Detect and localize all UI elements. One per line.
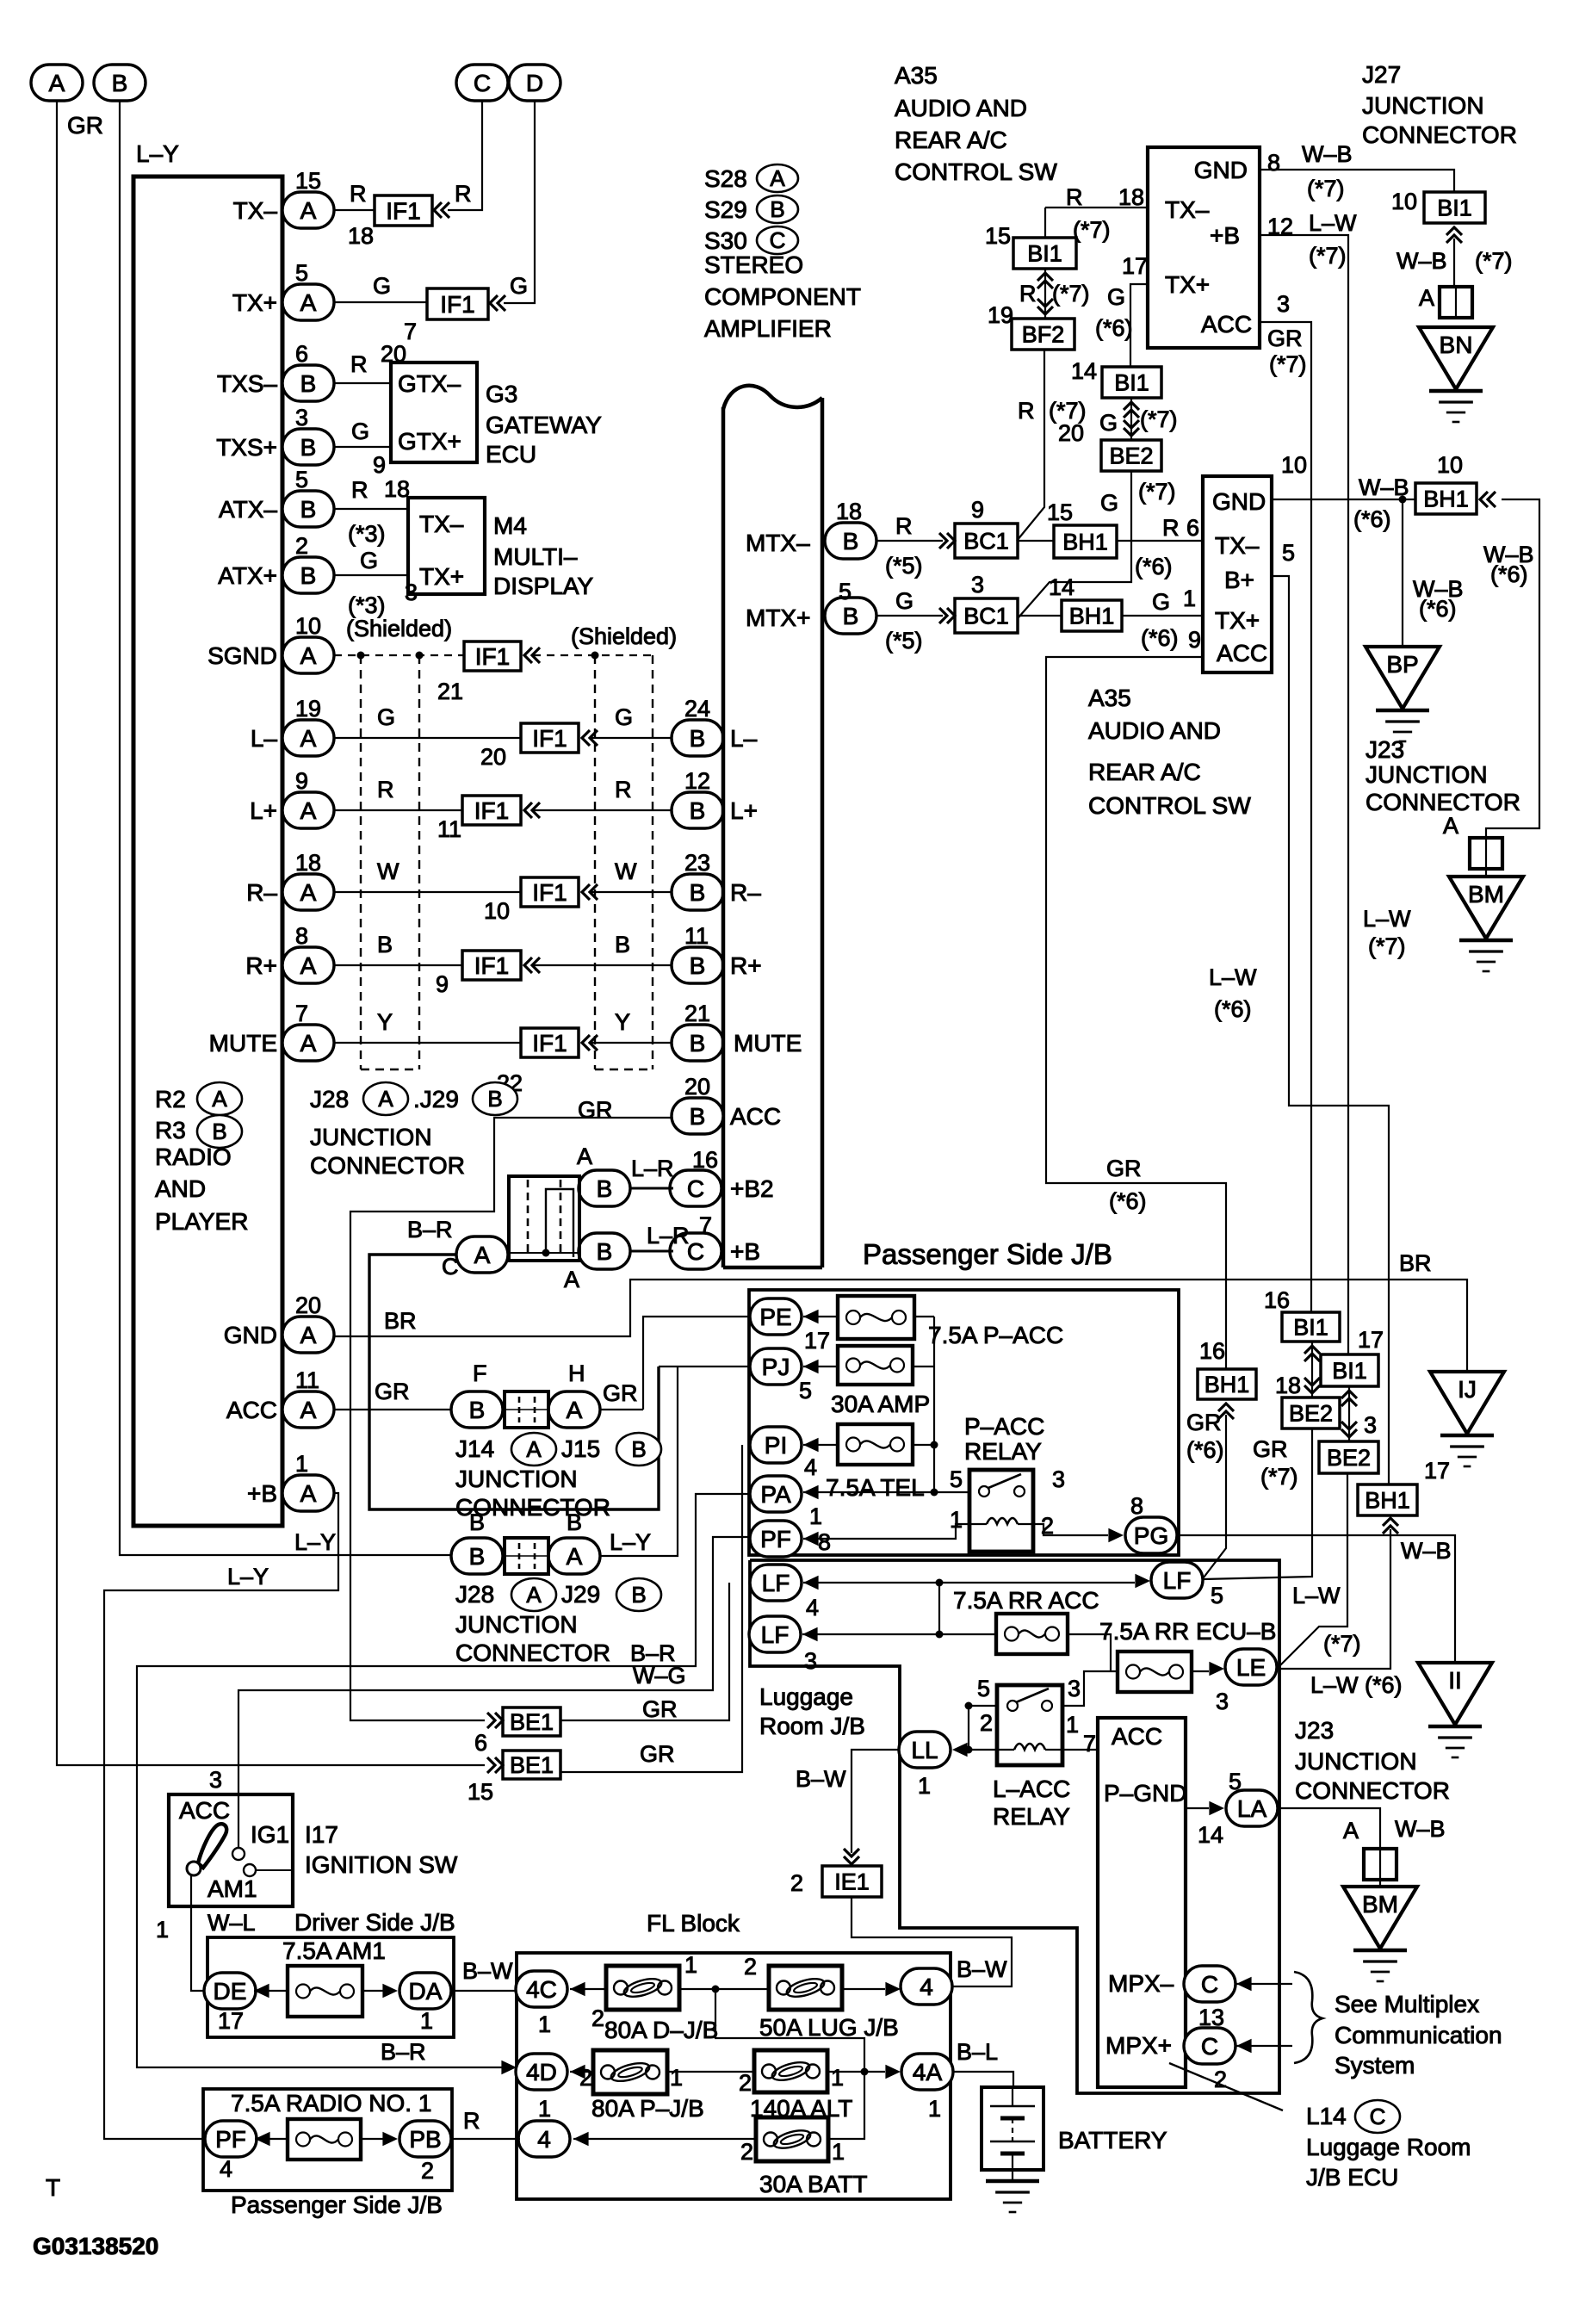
svg-text:A: A: [567, 1543, 583, 1570]
svg-text:MPX–: MPX–: [1108, 1970, 1174, 1997]
svg-text:8: 8: [295, 923, 308, 949]
svg-text:2: 2: [579, 2065, 592, 2091]
svg-text:G03138520: G03138520: [33, 2233, 158, 2259]
svg-text:GR: GR: [67, 112, 103, 139]
svg-text:L+: L+: [730, 797, 758, 824]
svg-text:IF1: IF1: [440, 291, 474, 318]
svg-text:B: B: [112, 70, 128, 96]
svg-text:18: 18: [348, 223, 374, 249]
svg-text:B: B: [300, 496, 317, 523]
svg-text:3: 3: [804, 1648, 817, 1674]
svg-text:L–Y: L–Y: [610, 1529, 651, 1555]
svg-text:GTX–: GTX–: [398, 370, 461, 397]
svg-text:S28: S28: [704, 165, 747, 192]
svg-text:PA: PA: [760, 1481, 791, 1508]
svg-text:B: B: [690, 952, 706, 979]
svg-text:L–W (*6): L–W (*6): [1310, 1672, 1403, 1698]
svg-text:JUNCTION: JUNCTION: [1362, 92, 1484, 119]
svg-text:A: A: [300, 725, 317, 752]
svg-text:G: G: [373, 273, 391, 299]
svg-text:B–W: B–W: [796, 1766, 846, 1792]
svg-text:PG: PG: [1134, 1522, 1168, 1549]
svg-text:A: A: [300, 1480, 317, 1507]
svg-text:18: 18: [1275, 1373, 1301, 1398]
svg-text:G: G: [615, 704, 633, 730]
svg-text:9: 9: [1188, 627, 1201, 653]
svg-text:PLAYER: PLAYER: [155, 1208, 248, 1235]
svg-text:GND: GND: [224, 1322, 277, 1348]
svg-text:GND: GND: [1212, 488, 1266, 515]
svg-text:B: B: [690, 1030, 706, 1057]
svg-text:R2: R2: [155, 1086, 186, 1112]
svg-text:GR: GR: [603, 1380, 638, 1406]
svg-text:RADIO: RADIO: [155, 1143, 232, 1170]
svg-text:5: 5: [1282, 540, 1295, 566]
svg-text:L–Y: L–Y: [294, 1529, 336, 1555]
svg-text:J15: J15: [561, 1435, 600, 1462]
svg-text:B+: B+: [1224, 567, 1254, 593]
svg-text:4: 4: [804, 1454, 817, 1480]
svg-text:CONTROL SW: CONTROL SW: [1088, 792, 1251, 819]
svg-text:PE: PE: [759, 1304, 791, 1330]
svg-text:9: 9: [436, 971, 449, 997]
svg-text:C: C: [1370, 2104, 1386, 2129]
svg-text:80A P–J/B: 80A P–J/B: [591, 2095, 704, 2122]
svg-text:1: 1: [295, 1451, 308, 1477]
svg-text:L–: L–: [730, 725, 758, 752]
svg-text:4D: 4D: [526, 2059, 557, 2085]
svg-text:1: 1: [538, 2096, 551, 2122]
svg-text:2: 2: [421, 2158, 434, 2184]
svg-text:B–R: B–R: [381, 2039, 426, 2065]
svg-text:AM1: AM1: [207, 1875, 257, 1902]
svg-text:17: 17: [804, 1328, 830, 1354]
svg-text:J27: J27: [1362, 61, 1401, 88]
svg-text:IF1: IF1: [474, 797, 509, 824]
svg-text:B: B: [300, 370, 317, 397]
svg-text:BE2: BE2: [1289, 1400, 1333, 1426]
svg-text:1: 1: [832, 2139, 845, 2165]
svg-text:I17: I17: [305, 1821, 338, 1848]
svg-text:4: 4: [920, 1974, 933, 2000]
svg-text:MUTE: MUTE: [734, 1030, 802, 1057]
svg-text:PF: PF: [215, 2126, 246, 2153]
svg-text:GR: GR: [1186, 1410, 1222, 1435]
svg-text:D: D: [526, 70, 543, 96]
svg-text:12: 12: [684, 768, 710, 794]
svg-text:21: 21: [437, 679, 463, 704]
svg-text:5: 5: [1211, 1583, 1223, 1608]
svg-text:6: 6: [474, 1730, 487, 1756]
svg-text:20: 20: [480, 744, 506, 770]
svg-text:IGNITION SW: IGNITION SW: [305, 1851, 458, 1878]
svg-text:A: A: [567, 1397, 583, 1423]
svg-text:TX+: TX+: [1165, 271, 1210, 298]
svg-text:+B: +B: [1210, 222, 1240, 249]
svg-text:CONNECTOR: CONNECTOR: [310, 1152, 465, 1179]
svg-text:BI1: BI1: [1027, 240, 1062, 266]
svg-text:19: 19: [295, 696, 321, 722]
svg-text:3: 3: [209, 1767, 222, 1793]
svg-text:L–W: L–W: [1363, 906, 1411, 932]
svg-text:DISPLAY: DISPLAY: [493, 573, 594, 599]
svg-text:REAR A/C: REAR A/C: [1088, 759, 1201, 785]
svg-text:PJ: PJ: [762, 1354, 790, 1380]
svg-text:TX+: TX+: [1215, 607, 1260, 634]
svg-text:A: A: [770, 165, 785, 191]
svg-text:JUNCTION: JUNCTION: [455, 1611, 578, 1638]
svg-text:S29: S29: [704, 196, 747, 223]
svg-text:(*6): (*6): [1109, 1188, 1147, 1214]
svg-text:G: G: [1152, 589, 1170, 615]
svg-text:20: 20: [1058, 420, 1084, 446]
svg-text:18: 18: [295, 850, 321, 876]
svg-text:CONNECTOR: CONNECTOR: [1295, 1777, 1450, 1804]
svg-text:(*3): (*3): [348, 521, 386, 547]
svg-text:A: A: [300, 1397, 317, 1423]
svg-text:IF1: IF1: [532, 1030, 567, 1057]
svg-text:GND: GND: [1194, 157, 1248, 183]
svg-text:T: T: [46, 2174, 60, 2201]
svg-text:18: 18: [1118, 184, 1144, 210]
svg-text:LE: LE: [1236, 1654, 1266, 1681]
svg-text:A: A: [300, 952, 317, 979]
svg-text:ACC: ACC: [1112, 1723, 1162, 1750]
svg-text:IF1: IF1: [474, 952, 509, 979]
svg-text:L–: L–: [251, 725, 278, 752]
svg-text:7: 7: [699, 1212, 712, 1238]
svg-text:4C: 4C: [526, 1976, 557, 2003]
svg-text:A: A: [1343, 1818, 1359, 1844]
svg-text:10: 10: [295, 613, 321, 639]
svg-text:B: B: [597, 1238, 613, 1265]
svg-text:BP: BP: [1386, 651, 1418, 678]
svg-text:BI1: BI1: [1437, 195, 1472, 220]
svg-text:M4: M4: [493, 512, 527, 539]
svg-text:(*5): (*5): [885, 553, 923, 579]
svg-text:(*7): (*7): [1073, 217, 1111, 243]
svg-text:BH1: BH1: [1423, 486, 1469, 511]
svg-text:B: B: [300, 434, 317, 461]
svg-text:10: 10: [484, 898, 510, 924]
svg-text:L–Y: L–Y: [136, 140, 179, 167]
svg-text:G: G: [351, 418, 369, 444]
svg-text:IF1: IF1: [386, 197, 420, 224]
svg-text:MUTE: MUTE: [209, 1030, 277, 1057]
svg-text:L–Y: L–Y: [227, 1564, 269, 1590]
svg-text:1: 1: [670, 2065, 683, 2091]
svg-text:A: A: [300, 1322, 317, 1348]
svg-text:BN: BN: [1440, 332, 1473, 358]
svg-text:J29: J29: [561, 1581, 600, 1608]
svg-text:R: R: [1162, 515, 1180, 541]
svg-text:A: A: [526, 1582, 542, 1608]
svg-text:J28: J28: [455, 1581, 494, 1608]
svg-text:J23: J23: [1295, 1717, 1334, 1744]
svg-text:ATX+: ATX+: [218, 562, 277, 589]
svg-text:A: A: [300, 1030, 317, 1057]
svg-text:A: A: [526, 1436, 542, 1462]
svg-text:A: A: [474, 1242, 491, 1268]
svg-text:A: A: [300, 289, 317, 316]
svg-text:R: R: [350, 181, 367, 207]
svg-text:2: 2: [1214, 2067, 1227, 2092]
svg-text:BR: BR: [384, 1308, 417, 1334]
svg-text:9: 9: [971, 497, 984, 523]
svg-text:(*6): (*6): [1095, 315, 1133, 341]
svg-text:24: 24: [684, 696, 710, 722]
svg-text:7.5A P–ACC: 7.5A P–ACC: [928, 1322, 1063, 1348]
svg-text:MULTI–: MULTI–: [493, 543, 578, 570]
svg-text:RELAY: RELAY: [993, 1803, 1070, 1830]
svg-text:14: 14: [1049, 574, 1074, 600]
svg-text:+B: +B: [730, 1238, 760, 1265]
svg-text:9: 9: [295, 768, 308, 794]
svg-text:7.5A TEL: 7.5A TEL: [826, 1474, 925, 1501]
svg-text:H: H: [568, 1360, 585, 1386]
svg-text:BE2: BE2: [1327, 1445, 1371, 1471]
svg-text:15: 15: [468, 1779, 493, 1805]
svg-text:3: 3: [971, 572, 984, 598]
svg-text:Room J/B: Room J/B: [759, 1713, 865, 1739]
svg-text:80A D–J/B: 80A D–J/B: [604, 2017, 718, 2043]
svg-text:B–R: B–R: [407, 1217, 453, 1243]
svg-text:R: R: [350, 351, 368, 377]
svg-text:R–: R–: [730, 879, 761, 906]
svg-text:G: G: [377, 704, 395, 730]
svg-text:A35: A35: [1088, 685, 1131, 711]
svg-text:+B2: +B2: [730, 1175, 774, 1202]
svg-text:6: 6: [295, 341, 308, 367]
svg-text:2: 2: [295, 533, 308, 559]
svg-text:TX+: TX+: [232, 289, 277, 316]
svg-text:GR: GR: [1253, 1436, 1288, 1462]
svg-text:MTX–: MTX–: [746, 530, 810, 556]
svg-text:A35: A35: [895, 62, 938, 89]
svg-text:AUDIO AND: AUDIO AND: [895, 95, 1027, 121]
svg-text:+B: +B: [247, 1480, 277, 1507]
svg-text:CONNECTOR: CONNECTOR: [1366, 789, 1520, 815]
svg-text:R: R: [377, 777, 394, 803]
svg-text:(*7): (*7): [1307, 176, 1345, 201]
svg-text:IJ: IJ: [1458, 1376, 1477, 1403]
svg-text:B–W: B–W: [462, 1958, 513, 1984]
svg-text:ECU: ECU: [486, 441, 536, 468]
svg-text:G: G: [360, 548, 378, 573]
svg-text:R: R: [1018, 398, 1035, 424]
svg-text:3: 3: [1364, 1412, 1377, 1438]
svg-text:BE2: BE2: [1109, 443, 1153, 468]
svg-text:BF2: BF2: [1022, 321, 1065, 347]
svg-text:20: 20: [381, 341, 406, 367]
svg-text:17: 17: [218, 2008, 244, 2034]
svg-text:B: B: [631, 1582, 646, 1608]
svg-text:14: 14: [1198, 1822, 1223, 1848]
svg-text:R+: R+: [245, 952, 277, 979]
svg-text:15: 15: [295, 168, 321, 194]
svg-text:B–L: B–L: [957, 2039, 998, 2065]
svg-text:A: A: [564, 1267, 579, 1292]
svg-text:BH1: BH1: [1365, 1487, 1410, 1513]
svg-text:B: B: [469, 1543, 486, 1570]
svg-text:B: B: [843, 528, 859, 555]
svg-text:7: 7: [295, 1001, 308, 1026]
svg-text:L–R: L–R: [647, 1223, 690, 1249]
svg-text:8: 8: [1267, 150, 1280, 176]
svg-text:R: R: [351, 477, 368, 503]
svg-text:TXS–: TXS–: [217, 370, 277, 397]
svg-text:IF1: IF1: [475, 643, 510, 670]
svg-text:C: C: [687, 1238, 704, 1265]
svg-text:5: 5: [977, 1676, 990, 1701]
svg-text:14: 14: [1071, 358, 1097, 384]
svg-text:B: B: [615, 932, 630, 957]
svg-text:COMPONENT: COMPONENT: [704, 283, 861, 310]
svg-text:30A BATT: 30A BATT: [759, 2171, 868, 2197]
svg-text:MTX+: MTX+: [746, 604, 810, 631]
svg-text:ACC: ACC: [226, 1397, 277, 1423]
svg-text:17: 17: [1424, 1458, 1450, 1484]
svg-text:20: 20: [684, 1074, 710, 1100]
svg-text:DA: DA: [409, 1978, 443, 2005]
svg-text:Luggage: Luggage: [759, 1683, 853, 1710]
svg-text:TX–: TX–: [1165, 196, 1210, 223]
svg-text:R: R: [1066, 184, 1083, 210]
svg-text:AMPLIFIER: AMPLIFIER: [704, 315, 832, 342]
svg-text:R: R: [615, 777, 632, 803]
svg-text:B: B: [567, 1509, 582, 1535]
svg-text:7.5A RADIO NO. 1: 7.5A RADIO NO. 1: [231, 2090, 431, 2116]
svg-text:9: 9: [373, 452, 386, 478]
svg-text:G3: G3: [486, 381, 517, 407]
svg-text:5: 5: [799, 1378, 812, 1404]
svg-text:L+: L+: [250, 797, 277, 824]
svg-text:JUNCTION: JUNCTION: [1295, 1748, 1417, 1775]
svg-text:R: R: [455, 181, 472, 207]
svg-text:R–: R–: [246, 879, 277, 906]
svg-text:10: 10: [1281, 452, 1307, 478]
svg-text:3: 3: [295, 405, 308, 431]
svg-text:B–W: B–W: [957, 1956, 1007, 1982]
svg-text:8: 8: [818, 1529, 831, 1555]
svg-text:ACC: ACC: [730, 1103, 781, 1130]
svg-text:MPX+: MPX+: [1105, 2032, 1172, 2059]
svg-text:7.5A RR ACC: 7.5A RR ACC: [953, 1587, 1099, 1614]
svg-text:LA: LA: [1237, 1795, 1267, 1822]
svg-text:15: 15: [985, 223, 1011, 249]
svg-text:L–W: L–W: [1309, 210, 1357, 236]
svg-text:C: C: [1201, 2033, 1218, 2060]
svg-text:ACC: ACC: [1217, 640, 1267, 666]
svg-text:J14: J14: [455, 1435, 494, 1462]
svg-text:A: A: [1419, 285, 1434, 311]
svg-text:5: 5: [839, 579, 852, 604]
svg-text:2: 2: [790, 1870, 803, 1896]
svg-text:16: 16: [1199, 1338, 1225, 1364]
svg-text:A: A: [300, 642, 317, 669]
svg-text:Luggage Room: Luggage Room: [1306, 2134, 1471, 2160]
svg-text:BI1: BI1: [1332, 1358, 1367, 1384]
svg-text:3: 3: [1277, 291, 1290, 317]
svg-text:G: G: [895, 588, 913, 614]
svg-text:CONTROL SW: CONTROL SW: [895, 158, 1057, 185]
svg-text:11: 11: [295, 1367, 319, 1393]
svg-text:5: 5: [295, 260, 308, 286]
svg-text:System: System: [1335, 2052, 1415, 2079]
svg-text:(*7): (*7): [1323, 1631, 1361, 1657]
svg-text:J28: J28: [310, 1086, 349, 1112]
svg-text:GTX+: GTX+: [398, 428, 461, 455]
svg-text:REAR A/C: REAR A/C: [895, 127, 1007, 153]
svg-text:C: C: [1201, 1971, 1218, 1998]
svg-text:20: 20: [295, 1292, 321, 1318]
svg-text:2: 2: [739, 2070, 752, 2096]
svg-text:J23: J23: [1366, 736, 1404, 763]
svg-text:II: II: [1448, 1667, 1462, 1694]
svg-text:LL: LL: [911, 1737, 938, 1763]
svg-text:(*7): (*7): [1052, 281, 1090, 307]
svg-text:A: A: [300, 797, 317, 824]
svg-text:1: 1: [156, 1917, 169, 1943]
svg-text:4: 4: [220, 2156, 232, 2182]
svg-text:1: 1: [538, 2011, 551, 2037]
svg-text:B: B: [212, 1119, 226, 1144]
svg-text:W–B: W–B: [1395, 1816, 1446, 1842]
svg-text:1: 1: [1066, 1712, 1079, 1738]
svg-text:1: 1: [809, 1503, 822, 1529]
svg-text:GR: GR: [642, 1696, 678, 1722]
svg-text:B: B: [597, 1175, 613, 1202]
svg-text:10: 10: [1437, 452, 1463, 478]
svg-text:B: B: [770, 196, 784, 222]
svg-text:1: 1: [928, 2096, 941, 2122]
svg-text:1: 1: [918, 1773, 931, 1799]
svg-text:B: B: [377, 932, 393, 957]
svg-text:L–ACC: L–ACC: [993, 1776, 1070, 1802]
svg-text:7.5A AM1: 7.5A AM1: [282, 1937, 386, 1964]
svg-text:1: 1: [420, 2008, 433, 2034]
svg-text:BM: BM: [1362, 1891, 1398, 1918]
svg-text:B: B: [300, 562, 317, 589]
svg-text:R: R: [1019, 281, 1037, 307]
svg-text:Driver Side J/B: Driver Side J/B: [294, 1909, 455, 1936]
svg-text:AND: AND: [155, 1175, 206, 1202]
svg-text:B: B: [690, 725, 706, 752]
svg-text:23: 23: [684, 850, 710, 876]
svg-text:7: 7: [1083, 1731, 1096, 1757]
svg-text:J/B ECU: J/B ECU: [1306, 2164, 1398, 2191]
svg-text:IF1: IF1: [532, 879, 567, 906]
svg-text:50A LUG J/B: 50A LUG J/B: [759, 2014, 899, 2041]
svg-text:Passenger Side J/B: Passenger Side J/B: [863, 1238, 1112, 1270]
svg-text:P–GND: P–GND: [1104, 1780, 1186, 1807]
svg-text:19: 19: [988, 302, 1013, 328]
svg-text:L–W: L–W: [1209, 964, 1257, 990]
svg-text:TX–: TX–: [1215, 532, 1260, 559]
svg-text:GR: GR: [375, 1379, 410, 1404]
svg-text:7.5A RR ECU–B: 7.5A RR ECU–B: [1099, 1618, 1276, 1645]
svg-text:BATTERY: BATTERY: [1058, 2127, 1167, 2154]
svg-text:A: A: [1443, 813, 1458, 839]
svg-text:(*6): (*6): [1135, 554, 1173, 579]
svg-text:LF: LF: [761, 1621, 790, 1648]
svg-text:GATEWAY: GATEWAY: [486, 412, 602, 438]
svg-text:C: C: [442, 1254, 459, 1280]
svg-text:8: 8: [1130, 1493, 1143, 1519]
svg-text:See Multiplex: See Multiplex: [1335, 1991, 1479, 2017]
svg-text:LF: LF: [762, 1570, 790, 1596]
svg-text:(*6): (*6): [1186, 1437, 1224, 1463]
